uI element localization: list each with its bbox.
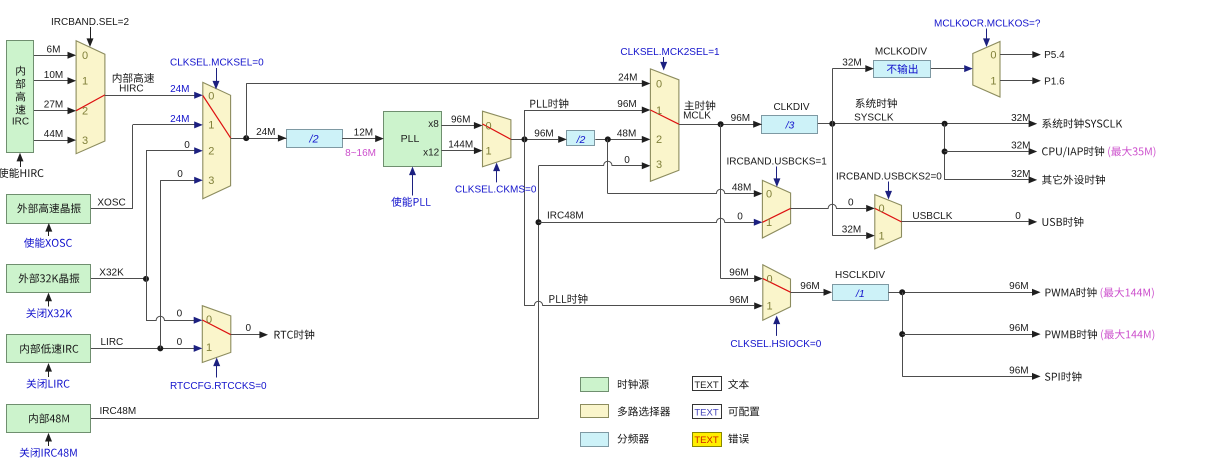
label PLL时钟 upper <box>530 99 568 109</box>
svg-text:1: 1 <box>879 230 885 242</box>
svg-text:48M: 48M <box>617 128 636 139</box>
svg-text:24M: 24M <box>170 84 189 95</box>
svg-text:96M: 96M <box>729 268 748 279</box>
svg-text:SYSCLK: SYSCLK <box>854 112 894 123</box>
mux CLKSEL.MCK2SEL (MCLK select) <box>650 69 679 181</box>
config arrow RTCCFG.RTCCKS=0 into mux RTCCKS <box>216 366 218 378</box>
wire 48M drop and run to mux USBCKS input 0 (hop over MCLK drop) <box>607 139 609 193</box>
mux IRCBAND.SEL (HIRC band select) <box>76 41 105 154</box>
PLL box <box>384 112 442 167</box>
svg-text:32M: 32M <box>842 58 861 69</box>
wire SYSCLK riser to MCLKODIV (32M) <box>832 69 834 124</box>
svg-text:IRCBAND.USBCKS2=0: IRCBAND.USBCKS2=0 <box>836 172 942 183</box>
wire mux RTCCKS output 0 to RTC clock <box>231 334 260 336</box>
svg-text:24M: 24M <box>618 73 637 84</box>
wire mux CKMS output to divider /2 (96M) <box>511 139 558 141</box>
svg-text:0: 0 <box>82 50 88 62</box>
mux CLKSEL.MCKSEL selected-path red line (input 0) <box>203 96 231 138</box>
svg-text:6M: 6M <box>47 44 61 55</box>
svg-text:MCLKOCR.MCLKOS=?: MCLKOCR.MCLKOS=? <box>934 19 1041 30</box>
svg-text:MCLKODIV: MCLKODIV <box>875 46 928 57</box>
wire CLKDIV output SYSCLK run <box>818 123 1029 125</box>
svg-text:0: 0 <box>767 273 773 285</box>
config arrow CLKSEL.MCK2SEL=1 into mux MCK2SEL <box>663 57 665 63</box>
junction IRC48M <box>536 219 542 225</box>
enable arrow 使能XOSC into XOSC box <box>48 226 50 236</box>
label SPI时钟 <box>1045 372 1082 382</box>
svg-text:96M: 96M <box>617 99 636 110</box>
svg-text:96M: 96M <box>800 281 819 292</box>
svg-text:0: 0 <box>1015 211 1021 222</box>
svg-text:TEXT: TEXT <box>694 407 718 418</box>
wire other peripheral clock 32M <box>945 179 1029 181</box>
label 系统时钟 SYSCLK <box>856 98 897 108</box>
mux CLKSEL.CKMS selected-path red line (input 0) <box>483 124 511 139</box>
svg-text:1: 1 <box>766 217 772 229</box>
svg-text:0: 0 <box>656 78 662 90</box>
label 主时钟 MCLK <box>684 101 715 111</box>
config arrow CLKSEL.CKMS=0 into mux CKMS <box>496 168 498 182</box>
svg-text:RTCCFG.RTCCKS=0: RTCCFG.RTCCKS=0 <box>170 381 267 392</box>
svg-text:32M: 32M <box>1011 169 1030 180</box>
label 关闭IRC48M <box>20 448 77 458</box>
junction PWMA <box>899 289 905 295</box>
svg-text:0: 0 <box>184 140 190 151</box>
enable arrow 使能HIRC into HIRC box <box>20 156 22 167</box>
legend label 多路选择器 <box>618 406 670 416</box>
svg-text:IRCBAND.SEL=2: IRCBAND.SEL=2 <box>51 17 130 28</box>
enable arrow 使能PLL into PLL box <box>412 172 414 196</box>
legend label 分频器 <box>618 434 649 444</box>
clock source box 外部32K晶振 (external 32K crystal) <box>7 265 91 293</box>
svg-text:0: 0 <box>848 197 854 208</box>
svg-text:X32K: X32K <box>99 267 124 278</box>
mux IRCBAND.USBCKS2 (USB clock select 2) <box>875 195 902 249</box>
svg-text:96M: 96M <box>451 115 470 126</box>
legend swatch TEXT error (yellow bg red text) <box>693 433 722 447</box>
svg-text:PLL: PLL <box>401 133 420 145</box>
legend swatch TEXT plain <box>693 377 722 391</box>
label 使能PLL <box>391 197 430 207</box>
label USB时钟 <box>1043 217 1084 227</box>
wire SPI clock 96M <box>902 376 1032 378</box>
junction 48M <box>605 136 611 142</box>
svg-text:P1.6: P1.6 <box>1044 76 1065 87</box>
config arrow CLKSEL.HSIOCK=0 into mux HSIOCK <box>776 322 778 336</box>
wire CPU/IAP clock 32M <box>945 151 1029 153</box>
mux CLKSEL.HSIOCK (high-speed peripheral clock select) <box>763 265 791 320</box>
svg-text:IRC48M: IRC48M <box>100 406 137 417</box>
wire HIRC 6M to mux IRCBAND input 0 <box>34 55 69 57</box>
svg-text:HIRC: HIRC <box>119 84 143 95</box>
mux CLKSEL.MCKSEL (master clock source select) <box>203 82 231 198</box>
svg-text:MCLK: MCLK <box>683 111 711 122</box>
legend label 时钟源 <box>618 379 649 389</box>
config arrow IRCBAND.USBCKS2=0 into mux USBCKS2 <box>888 182 890 192</box>
svg-text:USBCLK: USBCLK <box>912 211 952 222</box>
wire IRC48M riser <box>538 166 540 419</box>
svg-text:24M: 24M <box>256 127 275 138</box>
wire IRC48M top run to mux MCK2SEL input 3 (0, hop over 48M riser) <box>539 161 643 165</box>
svg-text:10M: 10M <box>44 70 63 81</box>
legend swatch clock source (green) <box>581 378 609 392</box>
wire X32K output to junction <box>91 278 146 280</box>
wire HIRC 44M to mux IRCBAND input 3 <box>34 140 69 142</box>
legend label 文本 <box>728 379 749 389</box>
wire MCLKODIV to mux MCLKOS input <box>931 68 964 70</box>
wire divider /2 to PLL box (12M) <box>342 138 376 140</box>
wire HSCLK drop <box>902 292 904 376</box>
wire HIRC 27M to mux IRCBAND input 2 <box>34 110 69 112</box>
wire HIRC output (mux IRCBAND to mux MCKSEL input 0) <box>105 95 196 97</box>
wire IRC48M output run to riser <box>91 418 539 420</box>
svg-text:96M: 96M <box>729 295 748 306</box>
junction LIRC <box>157 345 163 351</box>
clock source box 内部低速IRC (internal low-speed IRC) <box>7 335 91 363</box>
label PWMB时钟 (最大144M) <box>1046 329 1098 339</box>
svg-text:0: 0 <box>177 169 183 180</box>
wire IRC48M run to mux USBCKS input 1 (0, hop over MCLK drop) <box>539 218 755 222</box>
mux CLKSEL.MCK2SEL selected-path red line (input 1) <box>650 110 679 124</box>
disable arrow 关闭LIRC into LIRC box <box>48 366 50 377</box>
config arrow CLKSEL.MCKSEL=0 into mux MCKSEL <box>216 68 218 82</box>
svg-text:2: 2 <box>208 146 214 158</box>
svg-text:IRC: IRC <box>12 117 29 128</box>
label 内部高速IRC box text <box>16 66 25 76</box>
wire divider /2 output 48M to mux MCK2SEL input 2 <box>595 139 642 141</box>
svg-text:8~16M: 8~16M <box>345 148 376 159</box>
svg-text:0: 0 <box>246 323 252 334</box>
label 关闭LIRC <box>27 379 70 389</box>
wire SYSCLK drop to mux USBCKS2 input 1 (32M) <box>832 124 834 236</box>
svg-text:x12: x12 <box>423 148 440 159</box>
mux IRCBAND.USBCKS (USB clock select 1) <box>762 180 790 238</box>
svg-text:CLKDIV: CLKDIV <box>773 102 809 113</box>
mux CLKSEL.HSIOCK selected-path red line (input 0) <box>763 279 791 293</box>
wire PWMB clock 96M <box>902 334 1032 336</box>
svg-text:IRCBAND.USBCKS=1: IRCBAND.USBCKS=1 <box>727 156 828 167</box>
svg-text:3: 3 <box>656 159 662 171</box>
divider box /2 (PLL clock /2) <box>567 131 595 146</box>
legend label 可配置 <box>728 407 759 416</box>
svg-text:2: 2 <box>656 134 662 146</box>
junction X32K <box>143 276 149 282</box>
svg-text:32M: 32M <box>842 225 861 236</box>
svg-text:1: 1 <box>486 145 492 157</box>
svg-text:HSCLKDIV: HSCLKDIV <box>835 270 885 281</box>
svg-text:32M: 32M <box>1011 113 1030 124</box>
svg-text:CLKSEL.MCKSEL=0: CLKSEL.MCKSEL=0 <box>170 58 264 69</box>
mux IRCBAND.USBCKS2 selected-path red line (input 0) <box>875 208 902 222</box>
wire PLL clock drop to mux HSIOCK input 1 (96M, hop over IRC48M riser) <box>524 139 526 306</box>
svg-text:96M: 96M <box>1009 365 1028 376</box>
wire LIRC output to mux RTCCKS input 1 <box>91 348 195 350</box>
wire mux HSIOCK output 96M to divider HSCLKDIV <box>791 292 824 294</box>
wire mux MCK2SEL output MCLK 96M to divider CLKDIV <box>679 124 762 126</box>
clock source box 内部高速IRC (internal high-speed IRC) <box>7 41 34 153</box>
mux IRCBAND.USBCKS selected-path red line (input 1) <box>762 208 790 222</box>
svg-text:x8: x8 <box>428 119 439 130</box>
svg-text:1: 1 <box>656 105 662 117</box>
disable arrow 关闭IRC48M into IRC48M box <box>48 436 50 446</box>
svg-text:TEXT: TEXT <box>694 435 718 446</box>
svg-text:1: 1 <box>208 120 214 132</box>
svg-text:44M: 44M <box>44 129 63 140</box>
svg-text:LIRC: LIRC <box>101 337 124 348</box>
mux RTCCFG.RTCCKS selected-path red line (input 0) <box>202 320 231 335</box>
junction MCKSEL output <box>243 135 249 141</box>
wire SYSCLK branch drop <box>944 124 946 180</box>
wire mux USBCKS output to mux USBCKS2 input 0 (hop over SYSCLK drop) <box>791 204 867 208</box>
clock source box 外部高速晶振 (external high-speed crystal XOSC) <box>7 195 91 224</box>
legend swatch mux (yellow) <box>581 405 609 418</box>
disable arrow 关闭X32K into X32K box <box>48 296 50 307</box>
label 内部低速IRC box text <box>20 344 78 354</box>
wire PLL x8 output 96M to mux CKMS input 0 <box>441 125 474 127</box>
label 外部高速晶振 box text <box>17 203 80 213</box>
svg-text:0: 0 <box>766 188 772 200</box>
label 内部48M box text <box>29 413 69 423</box>
svg-text:CLKSEL.MCK2SEL=1: CLKSEL.MCK2SEL=1 <box>620 47 720 58</box>
wire USBCLK output to USB clock (0) <box>902 221 1029 223</box>
svg-text:XOSC: XOSC <box>97 198 125 209</box>
svg-text:0: 0 <box>486 120 492 132</box>
svg-text:0: 0 <box>208 90 214 102</box>
legend swatch TEXT configurable (blue) <box>693 405 722 419</box>
svg-text:IRC48M: IRC48M <box>547 211 584 222</box>
svg-text:/1: /1 <box>855 288 865 300</box>
divider box MCLKODIV 不输出 (no output) <box>874 61 931 78</box>
svg-text:3: 3 <box>82 135 88 147</box>
mux IRCBAND.SEL selected-path red line (input 2) <box>76 95 105 111</box>
svg-text:144M: 144M <box>448 140 473 151</box>
label 外部32K晶振 box text <box>19 273 80 283</box>
wire HIRC 10M to mux IRCBAND input 1 <box>34 80 74 82</box>
wire HSCLKDIV output to PWMA clock (96M) <box>888 292 1032 294</box>
wire mux MCLKOS output 0 to P5.4 <box>1000 54 1032 56</box>
svg-text:/3: /3 <box>785 120 795 132</box>
svg-text:/2: /2 <box>308 134 318 146</box>
junction CPU clock branch <box>942 149 948 155</box>
junction MCLK <box>718 121 724 127</box>
mux MCLKOCR.MCLKOS (clock output pin select) <box>973 42 1000 98</box>
label RTC时钟 <box>275 330 315 340</box>
svg-text:3: 3 <box>208 175 214 187</box>
svg-text:0: 0 <box>177 308 183 319</box>
svg-text:12M: 12M <box>354 128 373 139</box>
svg-text:96M: 96M <box>534 128 553 139</box>
legend label 错误 <box>728 434 749 444</box>
wire X32K drop to mux RTCCKS input 0 (hop over LIRC riser) <box>146 279 148 320</box>
svg-text:P5.4: P5.4 <box>1044 50 1065 61</box>
label 使能HIRC <box>0 168 44 178</box>
junction SYSCLK at CLKDIV output <box>829 121 835 127</box>
svg-text:32M: 32M <box>1011 141 1030 152</box>
wire mux MCKSEL output to divider /2 <box>231 138 287 140</box>
clock source box 内部48M (internal 48M) <box>7 405 91 433</box>
mux RTCCFG.RTCCKS (RTC clock select) <box>202 306 231 363</box>
wire X32K riser to mux MCKSEL input 2 <box>146 151 148 279</box>
divider box HSCLKDIV /1 <box>833 285 889 301</box>
junction PLL clock <box>522 136 528 142</box>
label PWMA时钟 (最大144M) <box>1046 287 1097 297</box>
svg-text:0: 0 <box>177 337 183 348</box>
label 不输出 box text <box>887 64 918 74</box>
config arrow IRCBAND.SEL=2 into mux IRCBAND <box>90 27 92 40</box>
svg-text:1: 1 <box>82 76 88 88</box>
svg-text:1: 1 <box>767 301 773 313</box>
label 使能XOSC <box>24 238 72 248</box>
svg-text:96M: 96M <box>731 113 750 124</box>
junction PWMB <box>899 331 905 337</box>
wire LIRC riser to mux MCKSEL input 3 <box>160 180 162 348</box>
legend swatch divider (cyan) <box>581 433 609 447</box>
label 系统时钟SYSCLK output <box>1042 119 1122 129</box>
wire mux MCLKOS output 1 to P1.6 <box>1000 80 1032 82</box>
svg-text:0: 0 <box>737 211 743 222</box>
svg-text:1: 1 <box>206 342 212 354</box>
mux CLKSEL.CKMS (PLL multiplier select) <box>483 111 511 167</box>
wire MCLK drop to mux HSIOCK input 0 (96M) <box>720 124 722 278</box>
junction SYSCLK branch column <box>942 121 948 127</box>
config arrow MCLKOCR.MCLKOS=? into mux MCLKOS <box>986 29 988 40</box>
svg-text:2: 2 <box>82 106 88 118</box>
svg-text:0: 0 <box>879 203 885 215</box>
wire XOSC output to mux MCKSEL input 1 <box>91 208 133 210</box>
svg-text:48M: 48M <box>732 183 751 194</box>
label PLL时钟 lower <box>549 294 587 304</box>
svg-text:0: 0 <box>624 155 630 166</box>
label 其它外设时钟 <box>1042 175 1105 185</box>
svg-text:0: 0 <box>206 314 212 326</box>
svg-text:/2: /2 <box>576 134 586 146</box>
divider box CLKDIV /3 <box>762 116 818 134</box>
svg-text:TEXT: TEXT <box>694 380 718 391</box>
divider box /2 (PLL input divider) <box>287 130 343 148</box>
svg-text:96M: 96M <box>1009 281 1028 292</box>
wire 24M riser and run to mux MCK2SEL input 0 <box>246 84 248 139</box>
wire PLL x12 output 144M to mux CKMS input 1 <box>441 150 474 152</box>
svg-text:27M: 27M <box>44 100 63 111</box>
svg-text:0: 0 <box>990 49 996 61</box>
svg-text:CLKSEL.CKMS=0: CLKSEL.CKMS=0 <box>455 185 537 196</box>
svg-text:CLKSEL.HSIOCK=0: CLKSEL.HSIOCK=0 <box>730 339 821 350</box>
config arrow IRCBAND.USBCKS=1 into mux USBCKS <box>776 167 778 180</box>
label 内部高速 HIRC <box>113 73 154 83</box>
label CPU/IAP时钟 (最大35M) <box>1042 146 1104 157</box>
svg-text:96M: 96M <box>1009 323 1028 334</box>
svg-text:24M: 24M <box>170 114 189 125</box>
wire PLL clock riser to mux MCK2SEL input 1 (96M) <box>524 110 526 139</box>
label 关闭X32K <box>26 308 72 318</box>
svg-text:1: 1 <box>990 76 996 88</box>
